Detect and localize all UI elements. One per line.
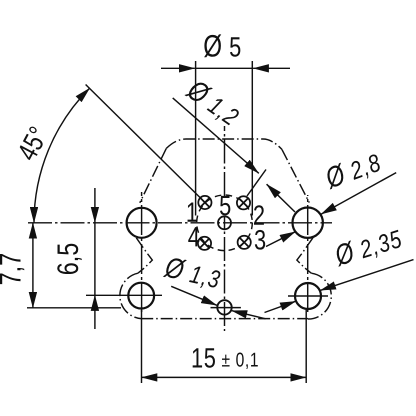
center pin 5 bbox=[218, 216, 231, 229]
Ø1,2 tangent extension bbox=[247, 170, 266, 197]
pin label 1 bbox=[186, 197, 198, 228]
pin label 4 bbox=[188, 222, 200, 253]
pin 4 bbox=[198, 237, 211, 250]
45 degree arc bbox=[34, 88, 90, 223]
vertical centerline bbox=[224, 126, 226, 331]
Ø1,2 leader bbox=[173, 98, 259, 173]
housing outline bottom edge bbox=[141, 318, 308, 320]
7,7 extension line bbox=[27, 307, 121, 309]
left holes centerline bbox=[141, 192, 143, 312]
text 6,5 bbox=[51, 243, 84, 276]
horizontal centerline bbox=[28, 222, 332, 224]
lower-right hole Ø2,35 bbox=[295, 283, 321, 309]
pin label 5 bbox=[219, 191, 231, 222]
svg-text:4: 4 bbox=[188, 222, 200, 253]
mask behind pin label 5 bbox=[218, 197, 231, 216]
right holes centerline bbox=[307, 195, 309, 312]
lower-left hole Ø2,35 bbox=[128, 283, 154, 309]
text Ø2,35 bbox=[330, 221, 406, 273]
housing outline right chamfer bbox=[282, 149, 309, 202]
housing outline right ear arc bbox=[308, 273, 331, 319]
7,7 dimension line bbox=[32, 223, 34, 308]
pin label 3 bbox=[254, 225, 266, 256]
Ø5 dimension line bbox=[161, 67, 195, 69]
housing outline left chamfer bbox=[140, 148, 167, 202]
pin 2 bbox=[237, 196, 250, 209]
text 7,7 bbox=[0, 253, 27, 286]
Ø1,3 leader bbox=[171, 286, 217, 305]
right mounting hole Ø2,8 bbox=[293, 208, 323, 238]
svg-text:6,5: 6,5 bbox=[51, 243, 84, 276]
housing outline top edge bbox=[166, 139, 282, 149]
Ø5 right extension line bbox=[251, 61, 253, 216]
lower-left hole horizontal centerline / 6,5 extension bbox=[86, 294, 162, 296]
bottom center hole Ø1,3 bbox=[217, 300, 231, 314]
pitch circle Ø5 bbox=[197, 195, 253, 251]
lower-right hole horizontal centerline bbox=[288, 295, 328, 297]
text Ø2,8 bbox=[320, 144, 385, 195]
Ø2,35 leader bbox=[320, 260, 413, 291]
Ø2,35 opposite arrow bbox=[265, 301, 296, 312]
pin 3 bbox=[238, 236, 251, 249]
pin 1 bbox=[198, 196, 211, 209]
6,5 dimension line bbox=[94, 188, 96, 223]
housing outline left ear arc bbox=[120, 273, 141, 318]
Ø1,2 opposite arrow bbox=[267, 184, 295, 212]
bottom hole horizontal centerline bbox=[211, 307, 241, 309]
left mounting hole Ø2,8 bbox=[127, 208, 157, 238]
15 left extension line bbox=[141, 310, 143, 383]
text 15 ± 0,1 bbox=[191, 343, 259, 374]
svg-text:Ø 5: Ø 5 bbox=[203, 29, 241, 64]
housing outline left notch bbox=[136, 238, 152, 273]
text 45° bbox=[12, 122, 55, 166]
15 right extension line bbox=[305, 310, 307, 383]
svg-text:7,7: 7,7 bbox=[0, 253, 27, 286]
text Ø1,2 bbox=[181, 73, 247, 133]
pin label 2 bbox=[253, 200, 265, 231]
45 degree line bbox=[86, 85, 200, 198]
Ø1,3 opposite arrow bbox=[232, 311, 266, 319]
svg-text:5: 5 bbox=[219, 191, 231, 222]
Ø2,8 opposite arrow bbox=[266, 232, 295, 247]
Ø5 left extension line bbox=[195, 61, 197, 216]
Ø2,8 leader bbox=[321, 173, 396, 215]
svg-text:3: 3 bbox=[254, 225, 266, 256]
text Ø5 bbox=[203, 29, 241, 64]
15 dimension line bbox=[142, 376, 307, 378]
text Ø1,3 bbox=[161, 250, 224, 295]
housing outline right notch bbox=[297, 238, 313, 273]
